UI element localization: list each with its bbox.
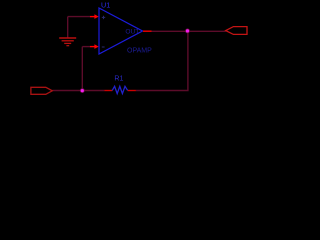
wire ground net vertical [67, 17, 69, 38]
svg-text:OPAMP: OPAMP [127, 47, 152, 54]
svg-text:U1: U1 [101, 0, 110, 9]
pin - (inverting) [90, 44, 99, 49]
svg-text:R1: R1 [114, 76, 123, 83]
wire feedback vertical [187, 31, 189, 90]
port right [226, 27, 247, 35]
svg-text:OUT: OUT [125, 29, 139, 36]
wire bottom left [52, 90, 104, 92]
pin OUT [143, 30, 152, 32]
wire inverting input vertical [81, 47, 83, 91]
wire inverting input horizontal [82, 46, 90, 48]
wire output net [152, 30, 226, 32]
resistor R1 [104, 76, 135, 94]
junction node A [80, 88, 85, 93]
wire feedback bottom right [136, 90, 189, 92]
junction node B [185, 29, 190, 34]
op-amp U1 [99, 0, 152, 54]
ground [59, 38, 76, 46]
port left [31, 87, 52, 94]
pin + (non-inverting) [90, 14, 99, 19]
wire ground net horizontal [68, 16, 90, 18]
